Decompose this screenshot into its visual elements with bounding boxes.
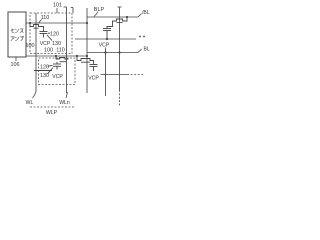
svg-text:130: 130 bbox=[40, 73, 49, 79]
svg-text:WLn: WLn bbox=[59, 100, 70, 106]
svg-text:130: 130 bbox=[52, 41, 61, 47]
svg-text:100: 100 bbox=[44, 48, 53, 54]
svg-text:BLP: BLP bbox=[94, 7, 105, 13]
svg-text:110: 110 bbox=[56, 48, 65, 54]
svg-text:120: 120 bbox=[50, 32, 59, 38]
svg-text:/BL: /BL bbox=[142, 10, 150, 16]
svg-text:WLP: WLP bbox=[46, 110, 58, 116]
svg-text:VCP: VCP bbox=[99, 43, 110, 49]
svg-text:120: 120 bbox=[40, 65, 49, 71]
svg-text:VCP: VCP bbox=[52, 74, 63, 80]
svg-text:BL: BL bbox=[144, 47, 150, 53]
svg-text:106: 106 bbox=[11, 62, 20, 68]
svg-text:101: 101 bbox=[53, 3, 62, 9]
svg-text:WL: WL bbox=[26, 100, 34, 106]
svg-text:VCP: VCP bbox=[88, 76, 99, 82]
svg-text:VCP: VCP bbox=[40, 41, 51, 47]
svg-text:100: 100 bbox=[26, 43, 35, 49]
svg-text:110: 110 bbox=[41, 15, 50, 21]
